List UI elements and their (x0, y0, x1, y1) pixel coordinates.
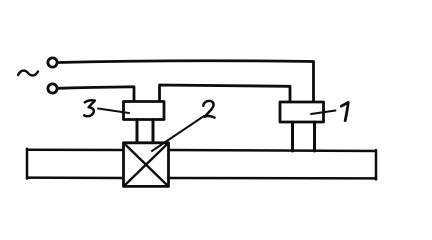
terminal bottom (48, 84, 57, 93)
legs device 1 to pipe (293, 122, 315, 151)
leader line 3 (98, 109, 129, 114)
label 3 (84, 100, 95, 116)
device 1 box (280, 102, 324, 122)
label 1 (341, 102, 348, 120)
terminal top (48, 58, 57, 67)
pipe (27, 149, 376, 180)
device 3 box (124, 102, 165, 120)
wire bottom terminal to device 3 (58, 87, 134, 102)
leader line 1 (311, 111, 336, 115)
valve 2 X box (124, 143, 169, 187)
legs device 3 to valve (137, 120, 153, 144)
AC source symbol ~ (18, 71, 38, 76)
leader line 2 (152, 116, 204, 151)
wire top terminal to device 1 (59, 61, 314, 103)
label 2 (203, 101, 214, 118)
wire device 3 to device 1 (160, 85, 291, 103)
